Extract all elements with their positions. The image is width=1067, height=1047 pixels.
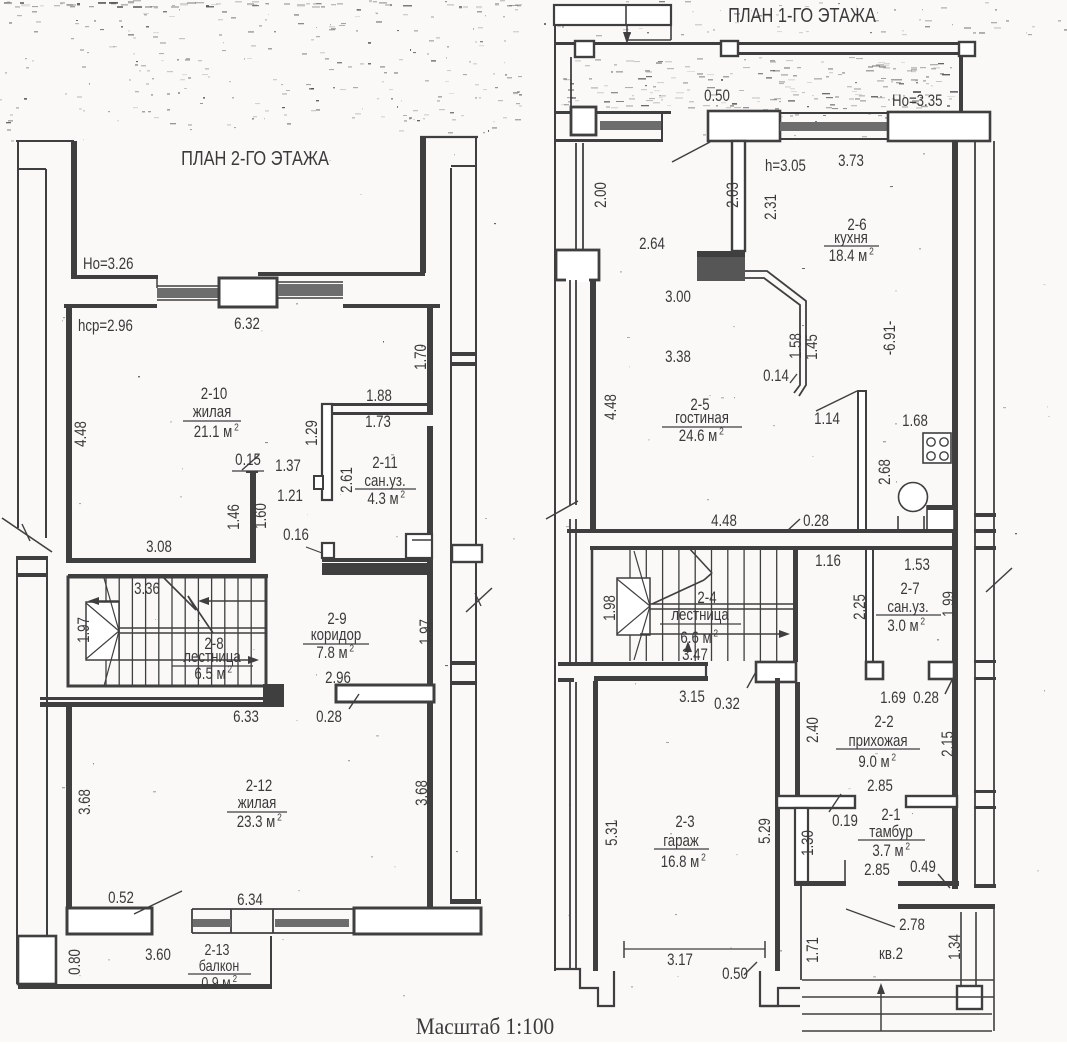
- svg-text:1.46: 1.46: [225, 504, 244, 530]
- svg-text:2.64: 2.64: [639, 235, 665, 254]
- wall 2-10/corridor upper face: [68, 558, 256, 563]
- svg-text:21.1 м: 21.1 м: [194, 423, 233, 442]
- room 2-12 left wall: [66, 707, 72, 908]
- svg-text:2-2: 2-2: [874, 713, 893, 732]
- kitchen window box left: [708, 111, 780, 141]
- upper wall line right: [258, 272, 425, 276]
- gas stove: [923, 433, 951, 463]
- svg-text:1.97: 1.97: [75, 617, 94, 643]
- svg-text:2.15: 2.15: [939, 731, 958, 757]
- wall corridor lower face: [68, 574, 268, 578]
- garage right wall: [775, 678, 780, 971]
- gostinaya left wall: [590, 280, 596, 530]
- right wall upper segment: [427, 306, 433, 415]
- left wall connector bars: [16, 556, 48, 560]
- svg-text:1.60: 1.60: [252, 503, 271, 529]
- svg-text:2: 2: [349, 643, 354, 655]
- svg-text:жилая: жилая: [238, 794, 277, 813]
- balcony window sash B: [275, 919, 349, 927]
- svg-text:2: 2: [400, 489, 405, 501]
- left bay end cap: [661, 112, 663, 142]
- balcony 2-13 bottom wall: [18, 984, 272, 989]
- svg-text:Но=3.35: Но=3.35: [892, 92, 942, 111]
- svg-text:2.31: 2.31: [762, 194, 781, 220]
- partition door swing 1.14: [816, 391, 857, 411]
- left wall inner leaf segments: [570, 57, 572, 108]
- svg-text:0.32: 0.32: [714, 695, 740, 714]
- svg-text:1.70: 1.70: [412, 344, 431, 370]
- svg-text:2: 2: [227, 664, 232, 676]
- svg-text:прихожая: прихожая: [848, 732, 907, 751]
- svg-text:тамбур: тамбур: [869, 823, 912, 842]
- svg-text:3.73: 3.73: [838, 152, 864, 171]
- svg-text:5.29: 5.29: [756, 818, 775, 844]
- svg-text:2.61: 2.61: [338, 467, 357, 493]
- kitchen divider wall: [732, 141, 745, 251]
- balcony door swing: [134, 891, 182, 914]
- svg-text:0.28: 0.28: [803, 512, 829, 531]
- svg-text:3.00: 3.00: [665, 288, 691, 307]
- svg-text:5.31: 5.31: [603, 820, 622, 846]
- svg-text:h=3.05: h=3.05: [765, 157, 806, 176]
- hall/tambour wall left piece: [777, 796, 855, 808]
- door jamb 0.16: [322, 543, 334, 558]
- porch left line: [800, 886, 802, 980]
- stair landing 2-8: [86, 602, 119, 660]
- balcony window sash A: [193, 919, 231, 927]
- svg-text:-6.91-: -6.91-: [881, 321, 900, 356]
- vent shaft box corridor: [406, 534, 432, 558]
- svg-text:Масштаб 1:100: Масштаб 1:100: [416, 1013, 554, 1039]
- door stub wall 2-10: [250, 472, 256, 560]
- svg-text:9.0 м: 9.0 м: [858, 753, 889, 772]
- garage left wall: [593, 681, 598, 971]
- svg-text:0.28: 0.28: [316, 708, 342, 727]
- tambour inner wall 0.19: [844, 860, 846, 884]
- left wall break symbol: [546, 501, 578, 519]
- svg-text:2.40: 2.40: [804, 717, 823, 743]
- right strip bottom cap: [450, 899, 481, 904]
- svg-text:0.15: 0.15: [235, 451, 261, 470]
- svg-text:3.60: 3.60: [145, 946, 171, 965]
- svg-text:7.8 м: 7.8 м: [316, 644, 347, 663]
- stair mid rail 2-8: [119, 627, 266, 629]
- svg-text:0.28: 0.28: [913, 689, 939, 708]
- stair break zigzag 2-8: [164, 578, 196, 610]
- door jamb stub right of stairs: [263, 684, 284, 707]
- staircase 2-4 left wall: [591, 550, 594, 662]
- svg-text:кв.2: кв.2: [879, 945, 903, 964]
- svg-text:hcp=2.96: hcp=2.96: [78, 317, 133, 336]
- svg-text:2.78: 2.78: [899, 916, 925, 935]
- svg-text:2: 2: [701, 852, 706, 864]
- left strip break symbol: [2, 518, 52, 552]
- svg-text:1.14: 1.14: [814, 410, 840, 429]
- porch columns: [960, 912, 962, 988]
- svg-text:жилая: жилая: [193, 403, 232, 422]
- WC partition: [866, 549, 873, 662]
- stair treads 2-8: [105, 578, 107, 685]
- staircase 2-4 right wall: [793, 550, 798, 662]
- svg-text:лестница: лестница: [671, 606, 729, 625]
- top-right wall segment: [959, 56, 963, 112]
- svg-text:1.71: 1.71: [804, 937, 823, 963]
- right wall below window gap: [427, 426, 433, 908]
- porch rear wall: [898, 904, 995, 909]
- steps arrow: [880, 988, 882, 1031]
- right strip box: [452, 545, 482, 562]
- gostinaya bottom wall upper face: [567, 529, 958, 533]
- svg-text:2-7: 2-7: [900, 580, 919, 599]
- garage door dim line: [624, 948, 765, 950]
- recess door swing: [672, 142, 710, 162]
- garage bottom-right steps: [760, 971, 800, 1006]
- svg-text:3.7 м: 3.7 м: [872, 842, 903, 861]
- svg-text:ПЛАН 2-ГО ЭТАЖА: ПЛАН 2-ГО ЭТАЖА: [181, 146, 330, 169]
- door swing tick 0.15: [242, 455, 259, 470]
- svg-text:2: 2: [905, 841, 910, 853]
- tick 0.19: [829, 794, 841, 812]
- svg-text:1.34: 1.34: [946, 934, 965, 960]
- porch post: [957, 986, 982, 1009]
- svg-text:1.16: 1.16: [815, 552, 841, 571]
- svg-text:гараж: гараж: [663, 832, 699, 851]
- window W1 top: [156, 277, 158, 288]
- right cavity wall lines: [974, 141, 976, 888]
- svg-text:2: 2: [233, 973, 237, 984]
- svg-text:0.52: 0.52: [108, 889, 134, 908]
- room 2-12 top wall: [40, 702, 284, 707]
- svg-text:2-10: 2-10: [201, 385, 228, 404]
- right wing wall: [420, 137, 426, 273]
- svg-text:1.98: 1.98: [601, 595, 620, 621]
- svg-text:6.33: 6.33: [233, 708, 259, 727]
- svg-text:2: 2: [713, 628, 718, 640]
- svg-text:3.08: 3.08: [146, 538, 172, 557]
- svg-text:4.48: 4.48: [602, 394, 621, 420]
- svg-text:2: 2: [277, 812, 282, 824]
- scanner noise speckles: [252, 5, 259, 6]
- top wall end pier: [959, 42, 975, 56]
- right wing top line: [420, 136, 478, 138]
- sink pedestal: [898, 516, 924, 531]
- hallway left wall upper: [795, 682, 800, 796]
- top wall pier 2: [721, 41, 738, 56]
- svg-text:1.69: 1.69: [880, 689, 906, 708]
- top-right corner box: [888, 112, 990, 141]
- left wall inner leaf below pier: [569, 280, 571, 505]
- svg-text:1.45: 1.45: [803, 334, 822, 360]
- left exterior wall below break outer: [16, 557, 18, 984]
- svg-text:кухня: кухня: [834, 229, 868, 248]
- top wall pier 1: [575, 41, 594, 57]
- svg-text:2.85: 2.85: [867, 777, 893, 796]
- tambour left wall: [795, 808, 808, 882]
- balcony window frame: [192, 908, 354, 910]
- svg-text:сан.уз.: сан.уз.: [364, 472, 405, 491]
- under-stair wall second face: [40, 697, 266, 700]
- room 2-10 left wall: [66, 304, 72, 563]
- svg-text:2: 2: [234, 422, 239, 434]
- svg-text:сан.уз.: сан.уз.: [887, 598, 928, 617]
- right cavity strip inner line: [450, 168, 452, 900]
- svg-text:4.3 м: 4.3 м: [367, 490, 398, 509]
- wall A top-left: [73, 275, 158, 279]
- left bay sash: [600, 121, 663, 130]
- svg-text:2.25: 2.25: [851, 594, 870, 620]
- svg-text:1.29: 1.29: [303, 420, 322, 446]
- svg-text:0.14: 0.14: [763, 367, 789, 386]
- stair winder fan 2-4: [634, 551, 650, 606]
- svg-text:0.80: 0.80: [66, 949, 85, 975]
- right cavity break: [986, 568, 1012, 592]
- right cavity connectors: [974, 513, 996, 517]
- room 2-12 bottom-right wall: [354, 908, 481, 934]
- top chimney box: [554, 5, 671, 25]
- svg-text:1.30: 1.30: [799, 830, 818, 856]
- right cavity strip outer line: [475, 138, 477, 901]
- stair break zigzag 2-4: [688, 547, 712, 573]
- svg-text:3.68: 3.68: [413, 780, 432, 806]
- tick 0.28 hall: [945, 678, 953, 694]
- svg-text:2: 2: [869, 246, 874, 258]
- svg-text:гостиная: гостиная: [675, 409, 729, 428]
- svg-text:1.99: 1.99: [940, 591, 959, 617]
- svg-text:2.96: 2.96: [325, 669, 351, 688]
- garage door jamb line: [705, 662, 707, 681]
- svg-text:1.73: 1.73: [365, 413, 391, 432]
- svg-text:6.34: 6.34: [237, 891, 263, 910]
- tick 0.32: [747, 670, 757, 688]
- wall segment C bottom line: [343, 304, 440, 308]
- 0.14 leader: [790, 374, 797, 383]
- svg-text:1.68: 1.68: [902, 412, 928, 431]
- left balcony strip outer wall: [17, 141, 19, 528]
- left wing wall: [71, 141, 77, 279]
- svg-text:0.16: 0.16: [283, 526, 309, 545]
- right exterior wall: [952, 141, 958, 889]
- svg-text:2: 2: [719, 426, 724, 438]
- svg-text:4.48: 4.48: [711, 512, 737, 531]
- porch right line: [993, 908, 995, 1031]
- arrow down below box: [626, 26, 628, 40]
- left wall caps at stairs: [558, 662, 574, 666]
- svg-text:23.3 м: 23.3 м: [237, 813, 276, 832]
- svg-text:3.15: 3.15: [679, 688, 705, 707]
- staircase 2-4 bottom wall: [571, 662, 708, 666]
- window W2 sash: [278, 284, 343, 296]
- kitchen niche partition: [858, 391, 866, 532]
- svg-text:1.21: 1.21: [277, 487, 303, 506]
- balcony 2-13 left post: [18, 936, 56, 984]
- svg-text:1.53: 1.53: [904, 556, 930, 575]
- pier B: [219, 278, 277, 307]
- right strip sill bars: [450, 352, 477, 356]
- svg-text:2.00: 2.00: [592, 182, 611, 208]
- svg-text:2-3: 2-3: [675, 813, 694, 832]
- solid wall corridor/san.uz: [322, 558, 433, 562]
- svg-text:2: 2: [920, 616, 925, 628]
- svg-text:16.8 м: 16.8 м: [661, 853, 700, 872]
- svg-text:0.19: 0.19: [832, 812, 858, 831]
- stair direction arrow 2-4: [640, 633, 783, 635]
- svg-text:4.48: 4.48: [72, 421, 91, 447]
- hall/tambour wall right piece: [906, 796, 957, 807]
- entrance steps: [802, 979, 994, 981]
- svg-text:2.68: 2.68: [876, 459, 895, 485]
- svg-text:3.38: 3.38: [665, 348, 691, 367]
- tick 0.28 gostinaya: [787, 519, 800, 531]
- svg-text:1.37: 1.37: [275, 457, 301, 476]
- svg-text:0.49: 0.49: [910, 858, 936, 877]
- san.uz left wall notch: [314, 476, 323, 489]
- staircase 2-8 box: [68, 577, 266, 686]
- stair direction arrows 2-8: [95, 600, 119, 602]
- svg-text:3.17: 3.17: [667, 951, 693, 970]
- curved kitchen partition: [745, 271, 806, 396]
- sink bowl: [899, 483, 928, 512]
- garage bottom-left steps: [556, 969, 614, 1006]
- garage top wall: [594, 676, 708, 681]
- svg-text:18.4 м: 18.4 м: [829, 247, 868, 266]
- svg-text:1.97: 1.97: [417, 619, 436, 645]
- top wall line upper: [554, 42, 960, 45]
- corner box stairs/hall: [756, 662, 796, 682]
- svg-text:3.68: 3.68: [76, 789, 95, 815]
- window W1 sash: [157, 288, 218, 298]
- left exterior wall below break inner: [46, 557, 48, 936]
- svg-text:2.85: 2.85: [864, 861, 890, 880]
- vent block solid: [697, 251, 745, 281]
- svg-text:3.36: 3.36: [134, 580, 160, 599]
- stair landing 2-4: [617, 578, 650, 635]
- left exterior wall outer line: [554, 25, 556, 971]
- WC door jamb right: [929, 662, 954, 679]
- svg-text:0.50: 0.50: [704, 87, 730, 106]
- stair winder fan 2-8: [104, 578, 119, 631]
- svg-text:3.47: 3.47: [682, 646, 708, 665]
- left bay pier: [571, 107, 596, 135]
- kitchen window sash: [780, 122, 888, 131]
- svg-text:3.0 м: 3.0 м: [887, 617, 918, 636]
- svg-text:6.32: 6.32: [234, 315, 260, 334]
- left window bay band: [554, 111, 671, 114]
- svg-text:6.5 м: 6.5 м: [194, 665, 225, 684]
- svg-text:24.6 м: 24.6 м: [679, 427, 718, 446]
- tambour bottom wall left: [794, 881, 846, 886]
- tick 0.28 corridor: [349, 694, 359, 709]
- WC door jamb left: [866, 662, 883, 679]
- svg-text:ПЛАН 1-ГО ЭТАЖА: ПЛАН 1-ГО ЭТАЖА: [728, 3, 877, 26]
- top wall line lower: [738, 52, 960, 55]
- chimney box right cell bottom: [670, 25, 672, 40]
- pier mid-left: [556, 250, 599, 280]
- svg-text:2.03: 2.03: [724, 182, 743, 208]
- gostinaya bottom wall lower face: [590, 546, 958, 550]
- stair mid rail 2-4: [650, 603, 793, 605]
- balcony 2-13 right edge: [270, 936, 272, 984]
- svg-text:коридор: коридор: [311, 626, 362, 645]
- svg-text:2-11: 2-11: [372, 454, 398, 473]
- room 2-10 top wall left part: [64, 304, 157, 308]
- svg-text:Но=3.26: Но=3.26: [83, 255, 133, 274]
- san.uz 2-11 top wall: [322, 403, 433, 406]
- stair treads 2-4: [629, 550, 631, 661]
- toilet: [927, 506, 954, 531]
- right strip connectors at corridor level: [450, 661, 477, 665]
- room 2-12 bottom-left wall: [67, 908, 152, 934]
- right strip break symbol: [466, 588, 492, 612]
- window W2 frame: [278, 281, 343, 283]
- tambour bottom wall right: [898, 881, 959, 886]
- corridor bottom wall: [336, 685, 434, 702]
- svg-text:1.88: 1.88: [366, 387, 392, 406]
- svg-text:0.9 м: 0.9 м: [201, 975, 230, 993]
- svg-text:2: 2: [891, 752, 896, 764]
- left balcony strip inner wall: [45, 169, 47, 538]
- san.uz 2-11 left wall: [322, 404, 332, 500]
